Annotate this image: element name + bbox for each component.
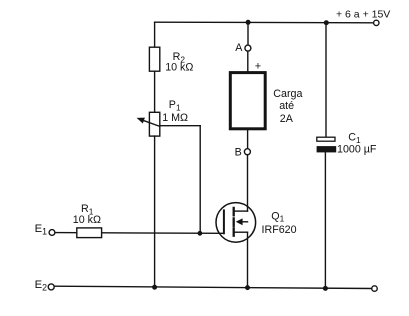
wire top rail to node A (247, 22, 249, 45)
svg-text:B: B (235, 147, 242, 159)
wire load box to node B (247, 130, 249, 149)
junction P1 branch / bottom rail (152, 285, 157, 290)
svg-text:E1: E1 (35, 223, 48, 237)
wire MOSFET source to bottom rail (247, 232, 249, 287)
load box Carga (230, 73, 265, 129)
svg-text:10 kΩ: 10 kΩ (165, 61, 193, 73)
svg-text:até: até (279, 100, 294, 112)
svg-text:P1: P1 (169, 99, 181, 112)
wire R2 to P1 (154, 71, 156, 112)
svg-text:+: + (255, 60, 261, 72)
resistor R2 (149, 47, 159, 71)
junction top rail / C1 branch (324, 20, 329, 25)
transistor Q1 channel segment middle (233, 218, 235, 225)
svg-text:IRF620: IRF620 (262, 224, 297, 236)
svg-text:1 MΩ: 1 MΩ (162, 112, 188, 124)
transistor Q1 body arrow (242, 221, 248, 223)
svg-text:Q1: Q1 (271, 210, 284, 223)
node B circle (244, 149, 250, 155)
transistor Q1 source link (234, 231, 248, 233)
transistor Q1 channel segment bottom (233, 228, 235, 235)
wire node B to MOSFET drain (247, 155, 249, 211)
potentiometer P1 wiper arrow (143, 120, 160, 126)
resistor R1 (77, 228, 102, 238)
wire bottom rail (54, 286, 372, 288)
wire wiper tap vertical down to gate line (199, 126, 201, 234)
transistor Q1 drain link (234, 210, 248, 212)
svg-text:1000 µF: 1000 µF (337, 143, 377, 155)
svg-text:2A: 2A (280, 113, 294, 125)
svg-text:+ 6 a + 15V: + 6 a + 15V (336, 8, 390, 20)
svg-text:10 kΩ: 10 kΩ (73, 214, 101, 226)
svg-text:A: A (235, 42, 243, 54)
wire C1 to bottom rail (324, 152, 326, 288)
wire top rail to C1 (325, 23, 327, 138)
terminal E2 (48, 284, 54, 290)
wire P1 wiper tap horizontal (160, 125, 200, 127)
junction C1 branch / bottom rail (323, 286, 328, 291)
node A circle (245, 45, 251, 51)
svg-text:Carga: Carga (273, 88, 302, 100)
potentiometer P1 body (149, 112, 159, 136)
wire gate line from E1 to MOSFET gate (55, 232, 224, 235)
wire left branch from top rail to R2 (154, 22, 156, 47)
junction top rail / load branch (246, 20, 251, 25)
terminal bottom right (372, 286, 378, 292)
transistor Q1 gate bar (223, 210, 225, 233)
capacitor C1 top plate (317, 137, 335, 141)
terminal E1 (49, 230, 55, 236)
wire top rail (155, 21, 374, 24)
transistor Q1 body circle (216, 203, 256, 243)
transistor Q1 channel segment top (233, 208, 235, 215)
junction wiper tap / gate wire (198, 231, 203, 236)
capacitor C1 bottom plate (317, 146, 337, 152)
wire P1 bottom to bottom rail (154, 136, 156, 287)
wire node A to load box (247, 51, 249, 71)
terminal +V supply (374, 20, 379, 25)
svg-text:E2: E2 (35, 279, 48, 293)
junction source / bottom rail (245, 285, 250, 290)
